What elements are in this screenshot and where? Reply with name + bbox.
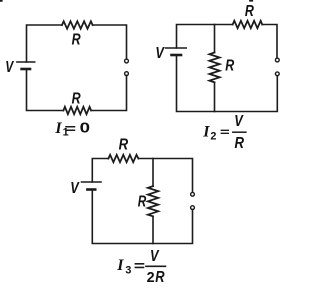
wire bottom-left segment of circuit 1	[27, 69, 64, 111]
resistor R4 (middle branch, circuit 2)	[209, 53, 219, 83]
wire middle branch bottom (circuit 2)	[214, 82, 216, 111]
wire top-right segment of circuit 3	[138, 159, 192, 193]
resistor R2 (bottom of circuit 1)	[63, 107, 91, 114]
svg-text:R: R	[138, 193, 147, 210]
svg-text:R: R	[245, 3, 255, 20]
stray scan speck at top-left corner	[0, 0, 2, 2]
wire right-bottom segment of circuit 2	[177, 55, 278, 112]
resistor R5 (top of circuit 3)	[108, 155, 138, 162]
svg-text:I: I	[116, 257, 124, 274]
svg-text:V: V	[70, 180, 80, 197]
svg-text:2: 2	[147, 269, 155, 286]
svg-text:3: 3	[125, 265, 131, 277]
resistor R3 (top of circuit 2)	[233, 21, 263, 28]
svg-text:R: R	[72, 32, 82, 49]
svg-text:R: R	[155, 269, 165, 286]
svg-text:R: R	[72, 90, 82, 107]
open terminal lower (circuit 2)	[275, 72, 279, 76]
battery V1 short plate	[22, 68, 30, 71]
svg-text:V: V	[155, 45, 165, 62]
wire middle branch bottom (circuit 3)	[152, 216, 154, 243]
battery V3 short plate	[87, 188, 95, 191]
stray crop mark above R of circuit 2	[250, 0, 252, 2]
svg-text:1: 1	[63, 127, 69, 139]
svg-text:R: R	[235, 135, 245, 152]
svg-text:0: 0	[80, 120, 90, 137]
svg-text:2: 2	[210, 130, 216, 142]
wire middle branch top (circuit 2)	[214, 25, 216, 53]
open terminal upper (circuit 2)	[275, 58, 279, 62]
svg-text:V: V	[5, 59, 14, 76]
open terminal lower (circuit 1)	[125, 72, 129, 76]
equals sign (I1 label)	[66, 127, 75, 130]
battery V1 long plate	[17, 61, 35, 63]
resistor R1 (top of circuit 1)	[62, 21, 93, 28]
open terminal lower (circuit 3)	[191, 206, 195, 210]
fraction bar (I3 label)	[146, 265, 165, 267]
wire top-left segment of circuit 2	[177, 25, 233, 49]
equals sign (I2 label)	[221, 130, 228, 133]
wire top-left segment of circuit 3	[92, 159, 108, 183]
battery V2 long plate	[166, 47, 187, 49]
equals sign (I3 label)	[135, 264, 143, 268]
battery V3 long plate	[81, 181, 101, 183]
svg-text:V: V	[234, 113, 244, 130]
svg-text:I: I	[54, 120, 62, 137]
open terminal upper (circuit 3)	[191, 192, 195, 196]
battery V2 short plate	[172, 54, 182, 57]
wire top-right segment of circuit 1	[93, 25, 127, 59]
wire middle branch top (circuit 3)	[152, 159, 154, 187]
resistor R6 (middle branch, circuit 3)	[148, 186, 158, 216]
wire right-bottom segment of circuit 3	[92, 190, 192, 244]
wire top-right segment of circuit 2	[262, 25, 277, 58]
fraction bar (I2 label)	[233, 131, 246, 133]
svg-text:R: R	[119, 137, 129, 154]
wire right-bottom segment of circuit 1	[91, 76, 126, 111]
wire top-left segment of circuit 1	[27, 25, 63, 62]
svg-text:R: R	[225, 58, 235, 75]
svg-text:I: I	[202, 123, 210, 140]
svg-text:V: V	[150, 248, 160, 265]
open terminal upper (circuit 1)	[125, 59, 129, 63]
